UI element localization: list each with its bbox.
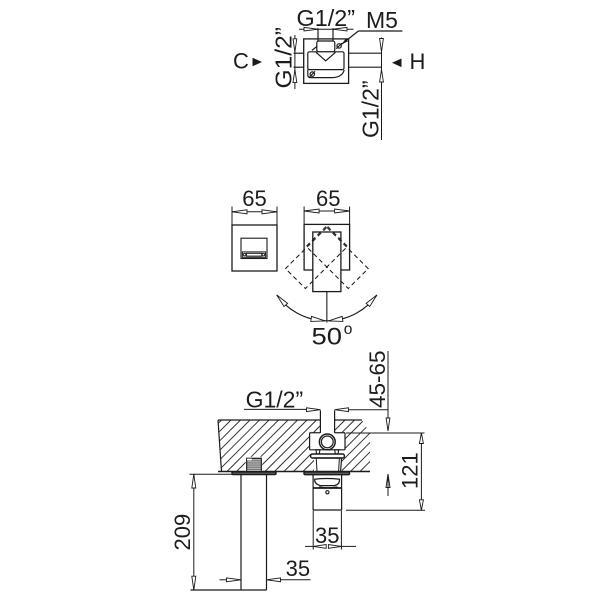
svg-text:o: o <box>344 321 353 338</box>
svg-text:209: 209 <box>170 514 195 551</box>
svg-text:65: 65 <box>242 186 266 211</box>
svg-text:G1/2”: G1/2” <box>246 387 304 413</box>
svg-text:50: 50 <box>312 324 343 351</box>
svg-text:G1/2”: G1/2” <box>271 27 297 89</box>
svg-text:C: C <box>233 49 249 74</box>
svg-text:G1/2”: G1/2” <box>358 80 384 138</box>
svg-text:65: 65 <box>316 186 340 211</box>
svg-text:45-65: 45-65 <box>365 350 390 408</box>
svg-text:35: 35 <box>286 556 310 581</box>
svg-text:G1/2”: G1/2” <box>297 5 356 31</box>
svg-text:H: H <box>410 49 426 74</box>
svg-text:35: 35 <box>315 523 339 548</box>
svg-text:M5: M5 <box>366 7 398 33</box>
svg-text:121: 121 <box>397 452 422 489</box>
